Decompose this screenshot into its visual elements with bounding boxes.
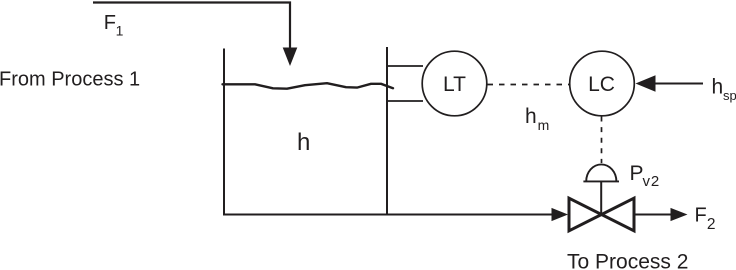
svg-text:LT: LT bbox=[443, 73, 466, 96]
arrow into valve bbox=[552, 208, 569, 221]
svg-text:LC: LC bbox=[588, 73, 615, 96]
svg-text:2: 2 bbox=[707, 216, 716, 233]
svg-text:sp: sp bbox=[723, 88, 736, 103]
arrow outlet F2 bbox=[671, 208, 688, 221]
label F2 bbox=[695, 205, 716, 233]
control valve V2 body bbox=[569, 198, 634, 231]
wire LT nozzle bottom bbox=[388, 100, 423, 102]
wire LT nozzle top bbox=[388, 65, 423, 67]
level transmitter LT bbox=[422, 51, 487, 116]
tank right wall bbox=[386, 47, 388, 215]
wire outlet to process 2 bbox=[635, 214, 672, 216]
svg-text:To Process 2: To Process 2 bbox=[567, 250, 688, 270]
svg-text:F: F bbox=[695, 205, 707, 227]
svg-text:h: h bbox=[297, 129, 310, 156]
label Pv2 bbox=[630, 162, 661, 190]
tank left wall bbox=[223, 49, 225, 215]
svg-text:v2: v2 bbox=[643, 173, 661, 190]
svg-text:h: h bbox=[712, 75, 724, 98]
level controller LC bbox=[570, 51, 635, 116]
wire inlet pipe from process 1 bbox=[93, 3, 297, 67]
svg-text:P: P bbox=[630, 162, 644, 185]
label F1 bbox=[104, 12, 124, 38]
wire setpoint input with arrow bbox=[636, 75, 704, 91]
svg-text:F: F bbox=[104, 12, 116, 34]
liquid surface wave bbox=[223, 83, 394, 89]
svg-text:h: h bbox=[525, 105, 537, 128]
valve stem bbox=[600, 181, 602, 213]
valve actuator diaphragm dome bbox=[586, 164, 616, 181]
wire controller output signal (dashed vertical) bbox=[601, 117, 603, 164]
label hm bbox=[525, 105, 549, 133]
svg-text:m: m bbox=[538, 117, 550, 133]
wire measured level signal (dashed) bbox=[488, 84, 570, 86]
svg-text:1: 1 bbox=[116, 23, 124, 39]
tank bottom / outlet pipe wire bbox=[223, 214, 553, 216]
svg-text:From Process 1: From Process 1 bbox=[0, 68, 140, 90]
label hsp bbox=[712, 75, 736, 103]
